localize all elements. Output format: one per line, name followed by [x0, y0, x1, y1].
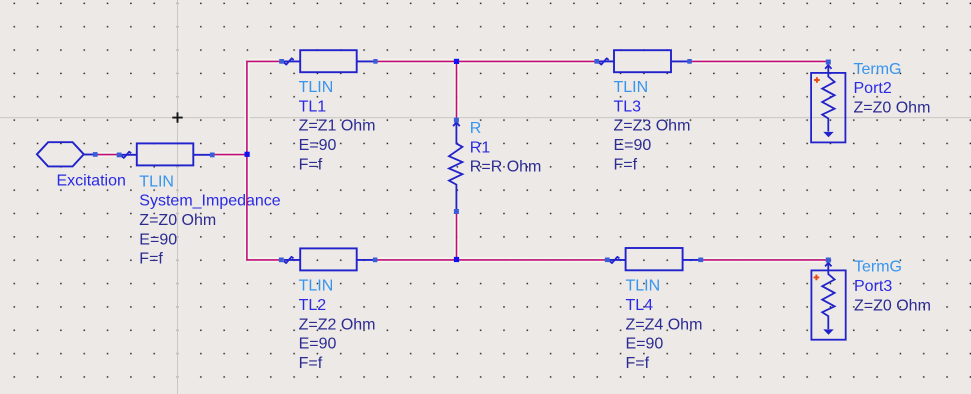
ground of Port2	[823, 132, 833, 137]
wire TL4 to Port3	[702, 259, 828, 261]
labels TLIN TL3	[614, 79, 691, 173]
wire sys right pin to trunk junction	[215, 154, 247, 156]
TLIN TL2 symbol	[284, 248, 373, 270]
svg-text:F=f: F=f	[614, 156, 638, 173]
svg-text:E=90: E=90	[626, 336, 664, 353]
pin TL3 left	[594, 59, 599, 64]
plus sign Port2	[814, 77, 820, 83]
plus sign Port3	[814, 275, 820, 281]
pin TL3 right	[687, 59, 692, 64]
svg-text:Z=Z1 Ohm: Z=Z1 Ohm	[299, 118, 376, 135]
labels TLIN TL4	[626, 278, 703, 372]
labels TLIN TL1	[299, 79, 376, 173]
wire resistor bottom to bottom row	[456, 212, 458, 260]
TermG Port2 symbol	[811, 64, 845, 142]
svg-text:TL4: TL4	[626, 297, 654, 314]
wire TL1 to R1 top	[377, 60, 457, 62]
svg-text:TL1: TL1	[299, 98, 327, 115]
axis vertical line	[177, 0, 179, 394]
pin sys right	[210, 153, 215, 158]
pin TL2 left	[279, 258, 284, 263]
svg-text:R=R Ohm: R=R Ohm	[470, 159, 542, 176]
svg-text:Port2: Port2	[854, 80, 892, 97]
svg-text:TL2: TL2	[299, 297, 327, 314]
svg-text:Z=Z0 Ohm: Z=Z0 Ohm	[854, 297, 931, 314]
labels TermG Port2	[854, 61, 931, 117]
TLIN System_Impedance symbol	[122, 143, 211, 165]
pin TL2 right	[373, 258, 378, 263]
pin Port3	[826, 258, 831, 263]
svg-text:TermG: TermG	[854, 61, 902, 78]
svg-text:Z=Z0 Ohm: Z=Z0 Ohm	[139, 212, 216, 229]
svg-text:F=f: F=f	[299, 355, 323, 372]
svg-text:Z=Z4 Ohm: Z=Z4 Ohm	[626, 316, 703, 333]
TLIN TL1 symbol	[284, 50, 374, 72]
wire hexagon pin to sys pin	[98, 154, 119, 156]
resistor R1	[449, 122, 462, 209]
ground of Port3	[823, 329, 833, 334]
wire glow layer	[98, 61, 829, 260]
labels TermG Port3	[854, 259, 931, 315]
wire TL3 to Port2	[691, 60, 828, 62]
TermG Port3 symbol	[811, 262, 845, 340]
TLIN TL4 symbol	[610, 248, 700, 270]
source V_AC hexagon Excitation	[37, 142, 93, 166]
pin sys left	[117, 153, 122, 158]
svg-text:Port3: Port3	[854, 278, 892, 295]
svg-text:TLIN: TLIN	[299, 278, 334, 295]
svg-text:Z=Z0 Ohm: Z=Z0 Ohm	[854, 99, 931, 116]
svg-text:TLIN: TLIN	[626, 278, 661, 295]
svg-text:F=f: F=f	[626, 355, 650, 372]
labels TLIN System_Impedance	[139, 173, 281, 267]
wire vertical trunk	[247, 61, 280, 260]
svg-text:TermG: TermG	[854, 259, 902, 276]
svg-text:F=f: F=f	[299, 156, 323, 173]
pin TL4 right	[698, 258, 703, 263]
svg-text:F=f: F=f	[139, 251, 163, 268]
pin R1 bottom	[454, 209, 459, 214]
svg-text:TLIN: TLIN	[299, 79, 334, 96]
pin hexagon output	[93, 152, 98, 157]
labels R R1	[470, 120, 542, 176]
svg-text:Z=Z2 Ohm: Z=Z2 Ohm	[299, 316, 376, 333]
pin TL1 left	[279, 59, 284, 64]
svg-text:E=90: E=90	[299, 336, 337, 353]
origin crosshair	[172, 112, 182, 122]
axis horizontal line	[0, 117, 971, 119]
svg-text:TLIN: TLIN	[614, 79, 649, 96]
svg-text:E=90: E=90	[139, 231, 177, 248]
svg-text:E=90: E=90	[614, 137, 652, 154]
junction node main	[245, 152, 250, 157]
pin Port2	[826, 60, 831, 65]
TLIN TL3 symbol	[599, 50, 688, 72]
svg-text:Excitation: Excitation	[57, 172, 126, 189]
svg-text:TLIN: TLIN	[139, 173, 174, 190]
svg-text:E=90: E=90	[299, 137, 337, 154]
svg-text:R: R	[470, 120, 482, 137]
svg-text:System_Impedance: System_Impedance	[139, 193, 281, 210]
pin TL4 left	[605, 258, 610, 263]
wire TL2 to R1 bottom to TL4	[377, 259, 606, 261]
labels TLIN TL2	[299, 278, 376, 372]
svg-text:R1: R1	[470, 139, 491, 156]
svg-text:TL3: TL3	[614, 98, 642, 115]
svg-text:Z=Z3 Ohm: Z=Z3 Ohm	[614, 118, 691, 135]
pin R1 top	[454, 118, 459, 123]
junction node R1 top	[454, 59, 459, 64]
junction node R1 bottom	[454, 257, 459, 262]
wire R1 top to TL3	[457, 60, 597, 62]
wire R1 top junction down to resistor	[456, 61, 458, 120]
pin TL1 right	[373, 59, 377, 64]
